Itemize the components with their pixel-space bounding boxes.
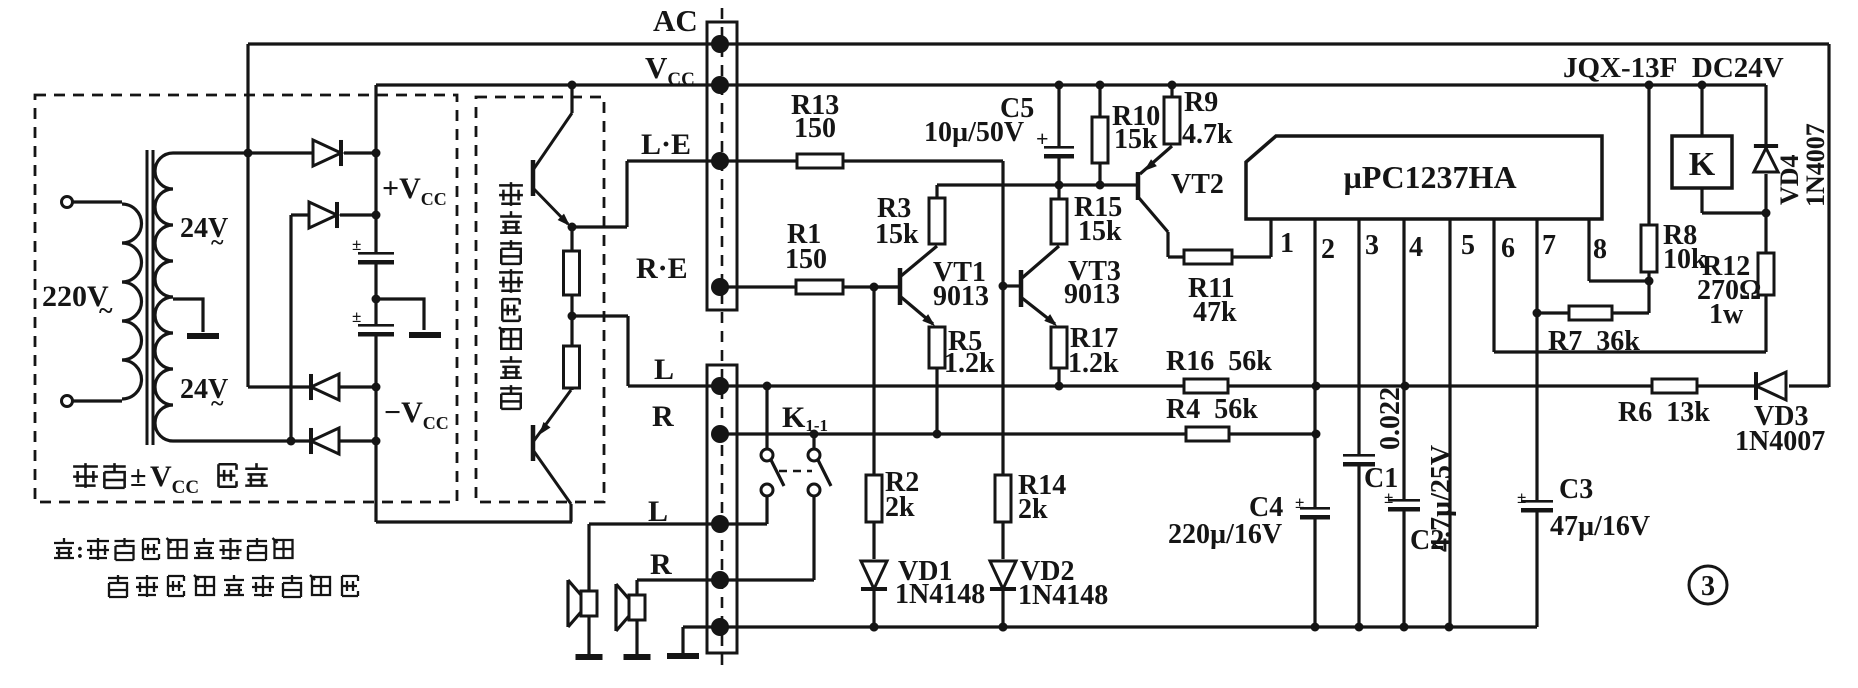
svg-text:VT2: VT2 (1171, 169, 1224, 200)
svg-text:1: 1 (1280, 228, 1294, 259)
svg-text:1.2k: 1.2k (1068, 348, 1119, 379)
svg-text:R: R (650, 548, 672, 581)
svg-text:1N4007: 1N4007 (1735, 426, 1825, 457)
svg-text:6: 6 (1501, 233, 1515, 264)
svg-text:L: L (648, 495, 668, 528)
svg-text:150: 150 (794, 113, 836, 144)
svg-text:~: ~ (211, 230, 224, 256)
svg-text:3: 3 (1701, 571, 1715, 602)
svg-text:±: ± (1295, 493, 1304, 512)
svg-text:3: 3 (1365, 230, 1379, 261)
svg-text:+: + (1036, 126, 1049, 151)
svg-text:7: 7 (1542, 230, 1556, 261)
svg-text:1N4007: 1N4007 (1801, 123, 1830, 207)
svg-text:2: 2 (1321, 234, 1335, 265)
svg-text:1N4148: 1N4148 (895, 579, 985, 610)
svg-text:1w: 1w (1709, 299, 1744, 330)
svg-text:L·E: L·E (641, 128, 691, 161)
svg-text:47µ/16V: 47µ/16V (1550, 511, 1650, 542)
svg-text:15k: 15k (875, 219, 919, 250)
svg-text:4: 4 (1409, 232, 1423, 263)
svg-text:R4 56k: R4 56k (1166, 394, 1258, 425)
svg-text:JQX-13F DC24V: JQX-13F DC24V (1563, 52, 1784, 84)
svg-text:VD4: VD4 (1775, 154, 1804, 205)
svg-text:µPC1237HA: µPC1237HA (1343, 159, 1516, 195)
svg-text:9013: 9013 (1064, 279, 1120, 310)
svg-text:2k: 2k (885, 492, 915, 523)
svg-text:5: 5 (1461, 230, 1475, 261)
svg-text:K: K (1689, 146, 1716, 183)
svg-text:47k: 47k (1193, 297, 1237, 328)
svg-text:10µ/50V: 10µ/50V (924, 117, 1024, 148)
svg-text:150: 150 (785, 244, 827, 275)
svg-text:1N4148: 1N4148 (1018, 580, 1108, 611)
svg-text:R: R (652, 400, 674, 433)
svg-text:R6 13k: R6 13k (1618, 397, 1710, 428)
svg-text:R16 56k: R16 56k (1166, 346, 1272, 377)
svg-text:10k: 10k (1663, 244, 1707, 275)
svg-text:~: ~ (99, 296, 113, 325)
svg-text:220µ/16V: 220µ/16V (1168, 519, 1282, 550)
svg-text:15k: 15k (1078, 216, 1122, 247)
svg-text:R9: R9 (1184, 87, 1218, 118)
svg-text:~: ~ (211, 391, 224, 417)
svg-text:±: ± (352, 235, 361, 254)
svg-text::: : (76, 538, 84, 564)
svg-text:±: ± (352, 307, 361, 326)
svg-text:AC: AC (653, 3, 698, 38)
svg-text:R·E: R·E (636, 252, 688, 285)
svg-text:4.7µ/25V: 4.7µ/25V (1426, 445, 1457, 552)
svg-text:4.7k: 4.7k (1182, 119, 1233, 150)
svg-text:1.2k: 1.2k (944, 348, 995, 379)
svg-text:15k: 15k (1114, 124, 1158, 155)
svg-text:9013: 9013 (933, 281, 989, 312)
svg-text:±: ± (1384, 488, 1393, 507)
svg-text:L: L (654, 353, 674, 386)
svg-text:8: 8 (1593, 234, 1607, 265)
svg-text:±: ± (130, 460, 146, 493)
svg-text:0.022: 0.022 (1375, 387, 1406, 450)
svg-text:±: ± (1517, 488, 1526, 507)
svg-text:C3: C3 (1559, 474, 1593, 505)
svg-text:2k: 2k (1018, 494, 1048, 525)
